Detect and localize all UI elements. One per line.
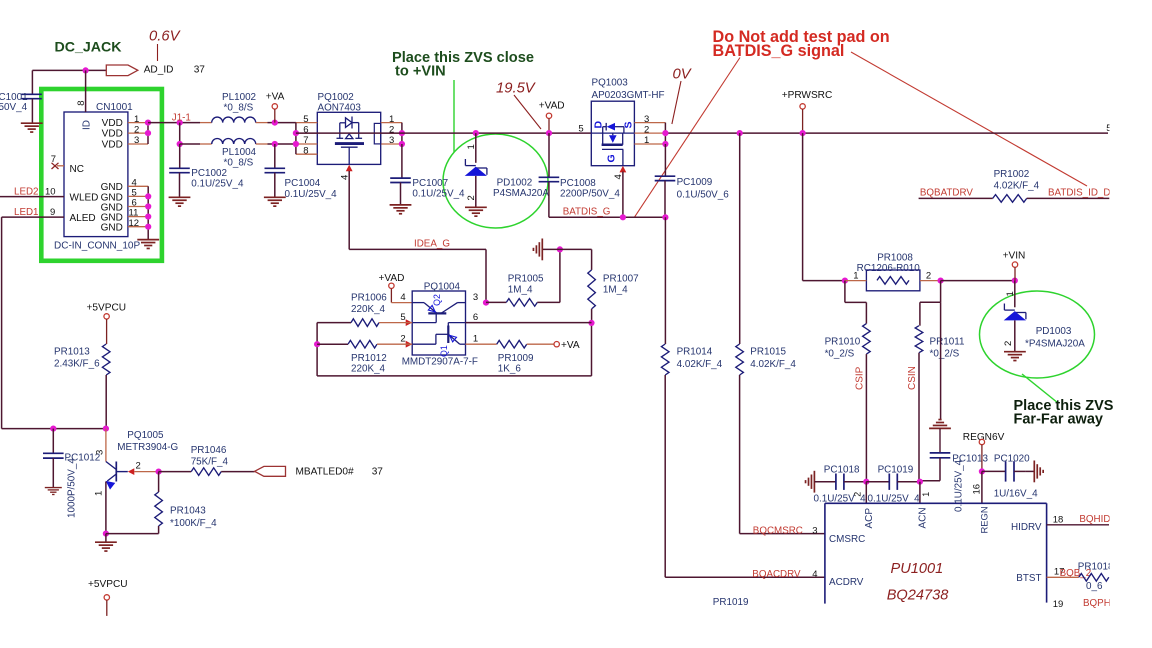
svg-text:BQCMSRC: BQCMSRC [753,525,803,536]
svg-text:75K/F_4: 75K/F_4 [191,457,229,468]
svg-text:1: 1 [473,333,478,344]
wire PC1001 to ground [31,99,33,124]
svg-text:AON7403: AON7403 [318,103,362,114]
off-page connector AD_ID (arrow right) [106,65,138,76]
wire +VAD to PQ1004 pin4 [391,302,412,304]
wire PR1043 bottom to emitter [106,533,159,535]
svg-text:BQHID: BQHID [1079,514,1110,525]
svg-text:2: 2 [1003,341,1014,346]
svg-text:PC1004: PC1004 [285,178,321,189]
svg-text:4.02K/F_4: 4.02K/F_4 [750,359,796,370]
svg-text:7: 7 [51,154,56,165]
svg-text:2.43K/F_6: 2.43K/F_6 [54,359,100,370]
PQ1002 left pin stubs 5 6 7 8 and bracket [296,122,317,124]
green circle around PD1002 [443,134,548,228]
svg-text:BATDIS_G signal: BATDIS_G signal [713,42,845,60]
svg-text:220K_4: 220K_4 [351,304,386,315]
svg-text:PR1015: PR1015 [750,347,786,358]
svg-text:0.1U/25V_4: 0.1U/25V_4 [285,189,338,200]
resistor PR1015 4.02K/F_4 [736,344,744,375]
svg-text:5: 5 [578,123,583,134]
resistor PR1043 *100K/F_4 [158,472,160,492]
svg-text:3: 3 [812,525,817,536]
svg-text:3: 3 [644,114,649,125]
svg-text:37: 37 [372,466,384,477]
wire ground tee to PR1007 [560,248,592,250]
PQ1002 inner pin tab [374,123,380,143]
svg-text:CN1001: CN1001 [96,102,133,113]
svg-text:4.02K/F_4: 4.02K/F_4 [994,180,1040,191]
svg-text:3: 3 [473,292,478,303]
wire PR1005 up to ground tee [559,249,561,302]
green leader line to ZVS circle PD1002 [453,80,455,152]
rotated ground right of PC1020 [1026,470,1034,472]
svg-text:5: 5 [303,114,308,125]
svg-text:P4SMAJ20A: P4SMAJ20A [493,188,549,199]
wire ACP pin [865,482,867,504]
junction IDEA_G / PQ1004 pin3 / PR1005 [483,300,489,306]
svg-text:1: 1 [466,144,477,149]
ground below PD1003 [1004,352,1026,361]
svg-text:DC_JACK: DC_JACK [55,39,123,55]
wire PR1015 to CMSRC row [739,375,741,534]
capacitor PC1001 (left edge, partially cropped) [21,94,42,98]
svg-text:ACP: ACP [864,508,875,529]
red leader to BATDIS_ID_D [851,52,1087,186]
svg-text:2200P/50V_4: 2200P/50V_4 [560,188,620,199]
wire ACN pin [919,482,921,504]
svg-text:CSIP: CSIP [855,366,866,390]
svg-text:ACDRV: ACDRV [829,577,864,588]
wire J1-1 down to PL1004 row [179,123,181,144]
svg-text:MMDT2907A-7-F: MMDT2907A-7-F [402,357,478,368]
svg-text:PC1002: PC1002 [191,168,227,179]
svg-text:+VAD: +VAD [539,101,565,112]
pin stubs 1-3 and bracket [128,122,148,124]
PQ1005 base red arrow and pin 2 [128,468,135,475]
ground below PC1001 [21,123,43,132]
svg-text:1: 1 [1005,291,1016,296]
svg-text:PQ1002: PQ1002 [318,92,354,103]
svg-text:PR1012: PR1012 [351,353,387,364]
junction +VIN / PD1003 [1012,278,1018,284]
off-page connector MBATLED0# (arrow left) [255,466,286,476]
svg-text:PQ1004: PQ1004 [424,282,461,293]
svg-text:PL1002: PL1002 [222,92,256,103]
svg-text:1: 1 [389,114,394,125]
junction dots GND bracket [145,193,151,199]
junction REGN6V node [979,468,985,474]
svg-text:PC1019: PC1019 [878,464,914,475]
svg-text:PR1013: PR1013 [54,347,90,358]
svg-text:1: 1 [644,135,649,146]
capacitor PC1002 [179,144,181,168]
svg-text:BQACDRV: BQACDRV [752,569,801,580]
green highlight box around DC jack connector [41,89,162,261]
wire CSIN column [918,353,920,482]
svg-text:0.6V: 0.6V [149,29,182,45]
ground below PQ1005 [105,534,107,543]
wire PR1010 jog from pin1 node [844,281,846,303]
svg-text:PC1018: PC1018 [824,464,860,475]
svg-text:ACN: ACN [917,507,928,528]
svg-text:0.1U/50V_6: 0.1U/50V_6 [677,189,730,200]
svg-text:BATDIS_ID_D: BATDIS_ID_D [1048,188,1110,199]
junction +VA tap [272,120,278,126]
inductor PL1002 [212,117,256,123]
capacitor PC1009 [664,144,666,176]
svg-text:+VAD: +VAD [379,273,405,284]
svg-text:+5VPCU: +5VPCU [87,303,127,314]
svg-text:2: 2 [644,124,649,135]
svg-text:BQ24738: BQ24738 [887,587,950,603]
junctions PQ1002 left bracket [293,130,299,136]
svg-text:PR1011: PR1011 [930,336,965,347]
capacitor PC1013 [930,453,951,458]
wire PC1013 column with flipped ground [940,302,942,419]
rotated ground (IDEA_G divider) [542,248,560,250]
PQ1003 pin4 red arrow, number and wire to BATDIS_G [620,166,627,173]
capacitor PC1012 1000P/50V_4 [52,429,54,454]
wire CSIP column [865,354,867,482]
svg-text:1: 1 [853,270,858,281]
svg-text:PC1007: PC1007 [412,178,448,189]
svg-text:37: 37 [194,65,206,76]
tvs diode PD1003 *P4SMAJ20A [1014,281,1016,308]
svg-text:PR1008: PR1008 [877,252,913,263]
wire main +VAD power bus [296,132,591,134]
red leader to BATDIS_G junction [635,58,740,217]
svg-text:NC: NC [70,164,84,175]
svg-text:PR1005: PR1005 [508,273,544,284]
svg-text:REGN: REGN [978,506,989,533]
wire bus down to PR1008 [802,133,804,281]
svg-text:1: 1 [921,492,931,497]
svg-text:BQBATDRV: BQBATDRV [920,188,973,199]
wire REGN pin [981,471,983,503]
svg-text:*P4SMAJ20A: *P4SMAJ20A [1025,338,1085,349]
ground below PD1002 [465,207,487,216]
svg-text:*0_8/S: *0_8/S [224,103,254,114]
svg-text:Far-Far away: Far-Far away [1014,412,1103,428]
wire BATDIS_G [549,216,666,218]
svg-text:IDEA_G: IDEA_G [414,239,450,250]
ground below PC1004 [264,197,286,206]
svg-text:2: 2 [136,460,141,471]
svg-text:AD_ID: AD_ID [144,65,174,76]
ground below PC1007 [390,205,412,214]
tvs diode PD1002 P4SMAJ20A [473,130,479,136]
svg-text:+VA: +VA [561,340,580,351]
svg-text:*0_2/S: *0_2/S [930,349,960,360]
PQ1002 pin 4 red arrow and number [346,165,353,172]
svg-text:0.1U/25V_4: 0.1U/25V_4 [191,179,244,190]
svg-text:PR1006: PR1006 [351,293,387,304]
svg-text:220K_4: 220K_4 [351,363,386,374]
junction collector node [103,426,109,432]
wire PR1011 jog from pin2 node [940,281,942,303]
junction PR1008 pin1 node [842,278,848,284]
svg-text:4: 4 [400,292,405,303]
junction +PRWSRC at bus [800,130,806,136]
svg-text:5: 5 [400,312,405,323]
svg-text:2: 2 [466,195,477,200]
rotated ground left of PC1018 [806,471,815,493]
svg-text:CSIN: CSIN [907,366,918,390]
svg-text:Q1: Q1 [439,345,449,357]
svg-text:1: 1 [94,491,105,496]
svg-text:PR1019: PR1019 [713,597,749,608]
wire bottom loop to PR1007 bottom [317,375,591,377]
junction PC1012 tap [50,426,56,432]
svg-text:4: 4 [812,569,817,580]
svg-text:BTST: BTST [1016,573,1041,584]
junctions on VDD bracket [145,120,151,126]
svg-text:PR1043: PR1043 [170,506,206,517]
wire emitter down [105,482,107,534]
svg-text:3: 3 [389,135,394,146]
mosfet PQ1003 AP0203GMT-HF [591,101,634,166]
junction emitter / PR1043 bottom / ground [103,531,109,537]
wire PL1004 to PQ1002 bracket [256,143,268,145]
svg-text:C1001: C1001 [0,92,28,103]
inductor PL1004 [212,139,256,144]
wire AD_ID net from capacitor PC1001 to connector [32,69,106,71]
svg-text:PQ1003: PQ1003 [592,78,629,89]
junctions on BATDIS_G [620,214,626,220]
junction PQ1004 pin6 / PR1007 / loop [588,320,594,326]
wire PQ1004 pin6 row [466,322,592,324]
svg-text:J1-1: J1-1 [172,113,191,124]
junction ground tee [557,246,563,252]
svg-text:2: 2 [400,333,405,344]
wire to +VIN tap [941,280,1015,282]
mosfet PQ1002 AON7403 [317,112,380,164]
green circle around PD1003 [980,291,1095,378]
svg-text:WLED: WLED [70,193,99,204]
svg-text:PC1009: PC1009 [677,177,713,188]
green leader from PD1003 circle to note [1022,374,1058,403]
svg-text:PD1002: PD1002 [497,178,533,189]
svg-text:*100K/F_4: *100K/F_4 [170,518,217,529]
PQ1003 right pin stubs 3 2 1 and bracket [634,122,665,124]
svg-text:6: 6 [473,312,478,323]
svg-text:PR1014: PR1014 [677,347,713,358]
wire PL1002 to PQ1002 with +VA tap [256,122,268,124]
wire PR1015 column from bus [739,133,741,344]
svg-text:+5VPCU: +5VPCU [88,579,128,590]
svg-text:+PRWSRC: +PRWSRC [782,90,833,101]
svg-text:PC1020: PC1020 [994,454,1030,465]
svg-text:PC1008: PC1008 [560,178,596,189]
svg-text:0.1U/25V_4: 0.1U/25V_4 [412,188,465,199]
svg-text:PL1004: PL1004 [222,147,257,158]
transistor PQ1004 MMDT2907A-7-F dual PNP [412,291,465,355]
svg-text:4.02K/F_4: 4.02K/F_4 [677,359,723,370]
capacitor PC1004 [274,144,276,168]
svg-text:PQ1005: PQ1005 [127,430,164,441]
svg-text:METR3904-G: METR3904-G [117,442,178,453]
ground below PC1002 [169,197,191,206]
svg-text:19.5V: 19.5V [496,81,537,97]
svg-text:PR1010: PR1010 [825,336,861,347]
junction PR1008 pin2 node [938,278,944,284]
svg-text:19: 19 [1053,599,1064,610]
svg-text:+VA: +VA [266,92,285,103]
svg-text:G: G [606,154,618,162]
svg-text:16: 16 [971,484,982,495]
junction at AD_ID / pin8 tap [83,67,89,73]
connector CN1001 body DC-IN_CONN_10P [64,112,128,237]
ic PU1001 BQ24738 (partial box) [825,503,1047,603]
svg-text:8: 8 [76,101,87,106]
junction PC1004 tap [272,141,278,147]
svg-text:1000P/50V_4: 1000P/50V_4 [67,458,78,518]
PQ1002 internal symbol (P-MOSFET with body diode) [335,117,364,165]
junction ACN node [917,479,923,485]
svg-text:DC-IN_CONN_10P: DC-IN_CONN_10P [54,241,140,252]
resistor PR1014 4.02K/F_4 [661,344,669,375]
PQ1002 right pin stubs 1 2 3 and bracket [381,122,402,124]
svg-text:50V_4: 50V_4 [0,102,28,113]
resistor PR1009 1K_6 to +VA [466,343,497,345]
svg-text:PR1007: PR1007 [603,273,639,284]
capacitor PC1007 [401,144,403,178]
svg-text:0V: 0V [673,67,693,83]
svg-text:ALED: ALED [70,213,96,224]
junctions PQ1003 right bracket [662,130,668,136]
wire PR1014 to ACDRV row [664,375,666,577]
wire from CN1001 to J1-1 and PL1002 [148,122,200,124]
wire LED1 going to lower-left [2,216,64,218]
svg-text:GND: GND [101,223,123,234]
junctions PQ1002 right bracket [399,130,405,136]
svg-text:PR1009: PR1009 [498,353,534,364]
junction PR1012 row [314,341,320,347]
svg-text:*0_8/S: *0_8/S [224,157,254,168]
leader from 0.6V to AD_ID [157,44,159,61]
svg-text:18: 18 [1053,514,1064,525]
svg-text:PD1003: PD1003 [1036,326,1072,337]
svg-text:*0_2/S: *0_2/S [825,349,855,360]
svg-text:MBATLED0#: MBATLED0# [296,466,355,477]
wire PR1014 column from BATDIS_G [664,217,666,344]
svg-text:CMSRC: CMSRC [829,534,865,545]
svg-text:Q2: Q2 [432,294,442,306]
svg-text:BATDIS_G: BATDIS_G [563,207,611,218]
svg-text:to +VIN: to +VIN [395,64,446,80]
junction base / PR1043 [156,469,162,475]
junction PR1015 at bus [737,130,743,136]
wire IDEA_G from PQ1002 pin4 [348,171,350,249]
junction PL1004 row [177,141,183,147]
svg-text:0_6: 0_6 [1086,581,1103,592]
pin 8 wire from AD_ID junction into CN1001 top [85,70,87,112]
svg-text:0.1U/25V_4: 0.1U/25V_4 [954,459,965,512]
ground below CN1001 [137,240,159,249]
svg-text:VDD: VDD [102,118,123,129]
svg-text:+VIN: +VIN [1003,251,1026,262]
PQ1004 red input arrows pins 5 and 2 [406,319,413,326]
svg-text:AP0203GMT-HF: AP0203GMT-HF [592,90,665,101]
wire BATDIS_ID_D [1027,197,1110,199]
svg-text:1M_4: 1M_4 [603,284,628,295]
PQ1003 internal symbol [591,123,634,166]
svg-text:3: 3 [95,450,106,455]
svg-text:1K_6: 1K_6 [498,363,522,374]
leader from 0V to PQ1003 pins [672,81,681,124]
junction ACP node [863,479,869,485]
capacitor PC1008 [548,133,550,177]
power +VA at PR1009 [554,342,559,347]
svg-text:PU1001: PU1001 [891,561,944,577]
svg-text:1U/16V_4: 1U/16V_4 [994,488,1038,499]
svg-text:VDD: VDD [102,140,123,151]
svg-text:PR1002: PR1002 [994,169,1030,180]
junction J1-1 [177,120,183,126]
wire BQBATDRV [919,197,993,199]
wire LED2 [0,196,64,198]
capacitor PC1020 1U/16V_4 [982,470,1006,472]
svg-text:HIDRV: HIDRV [1011,522,1042,533]
wire left column to PR1012 row and bottom loop [316,323,318,376]
svg-text:PR1046: PR1046 [191,445,227,456]
small ground below PC1012 [45,488,62,495]
wire LED1 bottom run [2,428,106,430]
svg-text:1M_4: 1M_4 [508,284,533,295]
leader from 19.5V to wire [514,95,541,129]
svg-text:2: 2 [926,270,931,281]
GND pin stubs and bracket wire [128,185,148,187]
svg-text:8: 8 [303,145,308,156]
wire PL1004 row [180,143,200,145]
svg-text:ID: ID [81,120,92,130]
svg-text:2: 2 [852,492,862,497]
svg-text:VDD: VDD [102,129,123,140]
flipped ground (points up) above PC1013 [929,420,951,429]
svg-text:PR1018: PR1018 [1078,561,1114,572]
